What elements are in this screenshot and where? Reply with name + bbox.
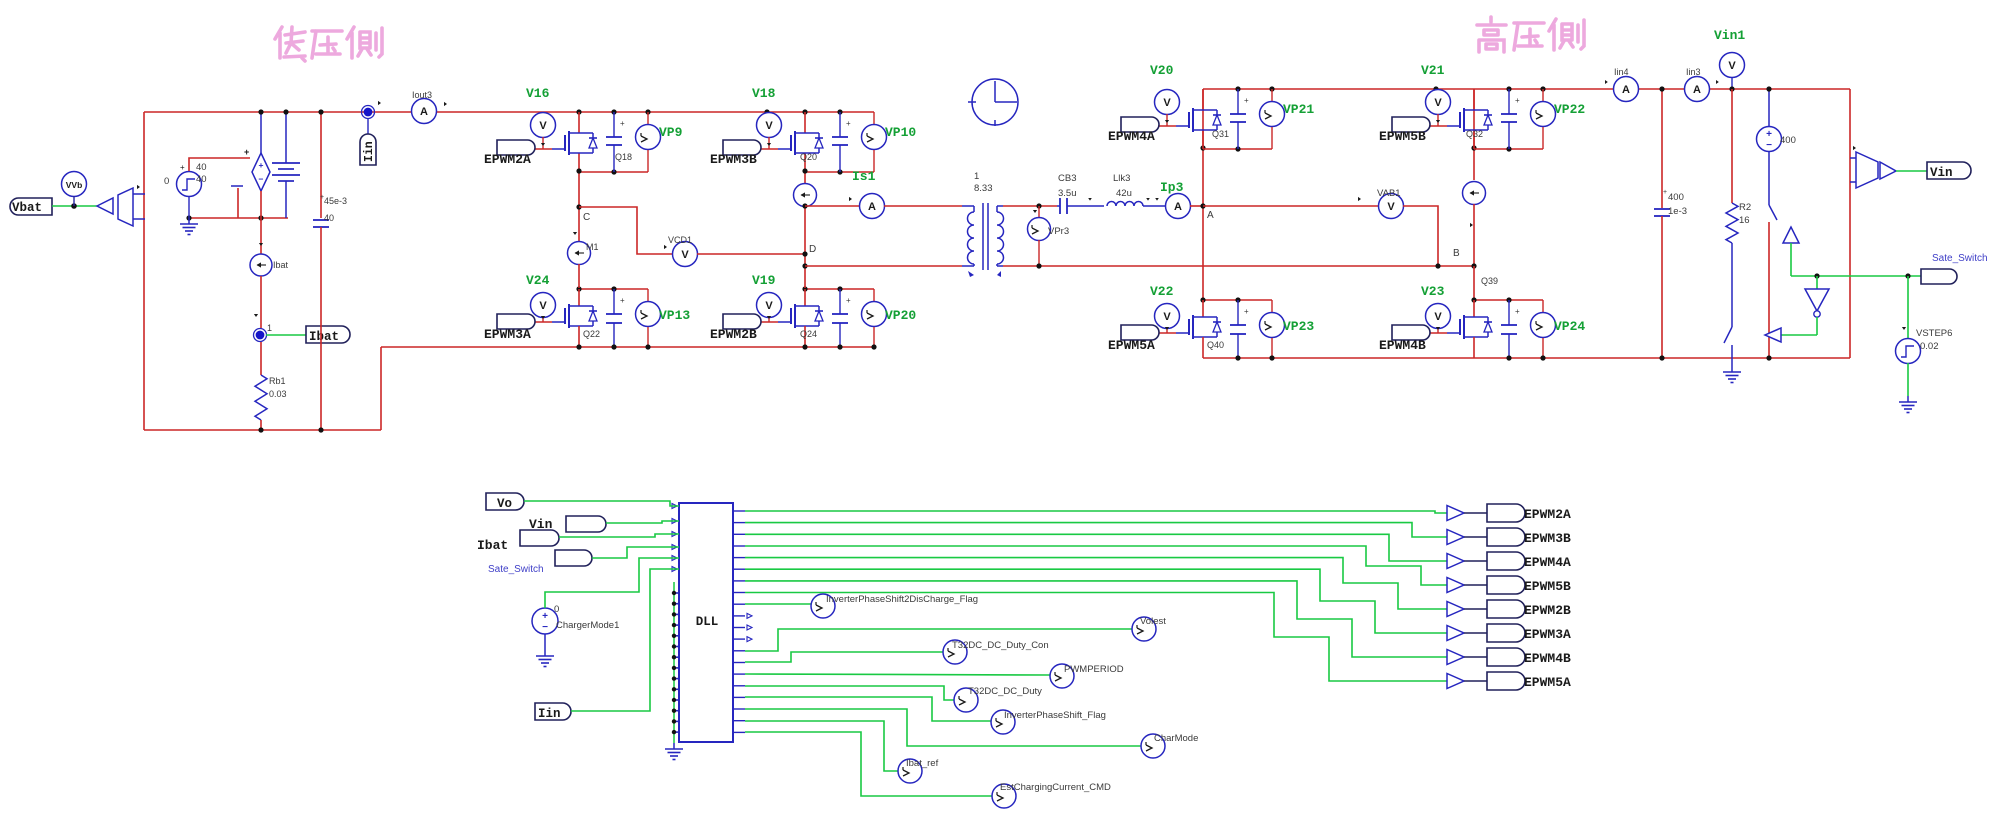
- wire Q24 cell local rail: [805, 288, 874, 290]
- ground under DLL pin bus: [673, 743, 675, 749]
- svg-text:Ibat: Ibat: [273, 260, 289, 270]
- label Vbat: [10, 198, 52, 215]
- clock symbol: [968, 79, 1018, 126]
- ammeter Iin4: [1605, 77, 1639, 102]
- svg-text:EPWM3A: EPWM3A: [484, 327, 531, 342]
- gate input EPWM2A: [497, 140, 535, 155]
- svg-text:ChargerMode1: ChargerMode1: [556, 620, 619, 631]
- svg-text:+: +: [180, 163, 185, 172]
- ground under R2 switch: [1731, 366, 1733, 372]
- svg-text:+: +: [1766, 129, 1772, 140]
- label Vin output: [1927, 162, 1971, 180]
- resistor R2 branch: [1724, 89, 1738, 366]
- wire Vin to DLL (green): [606, 521, 679, 523]
- wire Q39 cell local rail: [1474, 299, 1543, 301]
- svg-text:VAB1: VAB1: [1377, 188, 1401, 199]
- svg-text:T32DC_DC_Duty: T32DC_DC_Duty: [968, 686, 1042, 697]
- voltmeter VVb: [62, 172, 87, 207]
- voltmeter V19: [757, 293, 782, 323]
- svg-text:V: V: [539, 300, 547, 312]
- wire node A to VAB1: [1203, 205, 1379, 207]
- svg-text:3.5u: 3.5u: [1058, 188, 1077, 199]
- svg-text:+: +: [244, 147, 249, 157]
- svg-text:V: V: [1387, 201, 1395, 213]
- voltmeter V18: [757, 113, 782, 150]
- svg-text:VP24: VP24: [1554, 319, 1585, 334]
- output buffer EPWM5B: [1447, 578, 1487, 593]
- wire DLL to EPWM4A (green): [745, 534, 1447, 561]
- svg-text:+: +: [1244, 307, 1249, 316]
- transistor Q39: [1447, 300, 1492, 358]
- svg-text:42u: 42u: [1116, 188, 1132, 199]
- DLL left grounded pin bus: [672, 582, 679, 743]
- title low-voltage side (Chinese): [275, 27, 382, 61]
- capacitor Q32 snubber: [1501, 89, 1520, 149]
- svg-text:V23: V23: [1421, 284, 1445, 299]
- label box EPWM2B: [1487, 600, 1525, 618]
- svg-text:R2: R2: [1739, 202, 1751, 213]
- wire Is1 to transformer primary top: [884, 205, 962, 207]
- switch gate triangle (R2 dump): [1765, 328, 1781, 342]
- wire Ip3 to node A: [1190, 205, 1203, 207]
- svg-text:InverterPhaseShift2DisCharge_F: InverterPhaseShift2DisCharge_Flag: [826, 594, 978, 605]
- source ChargerMode1: [532, 608, 558, 650]
- svg-text:Ibat: Ibat: [309, 330, 339, 344]
- wire VCD1 to node D: [697, 253, 805, 255]
- svg-text:M1: M1: [586, 242, 599, 252]
- wire Q31 source stub: [1202, 130, 1204, 149]
- svg-text:V24: V24: [526, 273, 550, 288]
- transistor Q20: [778, 112, 823, 155]
- wire DLL to probe Volest (green): [745, 629, 1132, 651]
- svg-text:1e-3: 1e-3: [1668, 206, 1687, 217]
- svg-text:A: A: [1174, 201, 1182, 213]
- svg-text:VSTEP6: VSTEP6: [1916, 328, 1952, 339]
- svg-text:Llk3: Llk3: [1113, 173, 1130, 184]
- svg-text:Q24: Q24: [800, 329, 817, 339]
- wire Vbat to sense block (green): [52, 205, 97, 207]
- capacitor output 400/1e-3: [1654, 89, 1670, 358]
- svg-text:400: 400: [1668, 192, 1684, 203]
- probe VP24: [1531, 300, 1556, 358]
- wire right loop vertical: [1849, 89, 1851, 358]
- wire high bridge right leg upper: [1473, 89, 1475, 180]
- svg-text:0: 0: [554, 604, 559, 615]
- svg-text:Iin: Iin: [363, 141, 376, 162]
- svg-text:EPWM3A: EPWM3A: [1524, 627, 1571, 642]
- svg-text:Q31: Q31: [1212, 129, 1229, 139]
- capacitor CB3: [1057, 198, 1104, 214]
- wire low-side bottom rail (battery loop): [144, 429, 381, 431]
- probe VP13: [636, 289, 661, 347]
- svg-text:EPWM2A: EPWM2A: [1524, 507, 1571, 522]
- wire node D to transformer primary bottom: [805, 265, 962, 267]
- svg-text:Iin4: Iin4: [1614, 67, 1629, 77]
- wire Q18 source stub: [578, 153, 580, 172]
- probe Volest: [1132, 617, 1156, 641]
- svg-text:EPWM5B: EPWM5B: [1379, 129, 1426, 144]
- transistor Q40: [1176, 300, 1221, 358]
- wire DLL to probe InverterPhaseShift2DisCharge_Flag (green): [745, 603, 811, 605]
- probe VP22: [1531, 89, 1556, 149]
- svg-text:40: 40: [196, 162, 207, 173]
- DLL right output pin stubs: [733, 511, 745, 732]
- wire DLL to EPWM4B (green): [745, 581, 1447, 657]
- DLL unconnected pin arrows: [747, 613, 752, 641]
- svg-text:EPWM5B: EPWM5B: [1524, 579, 1571, 594]
- svg-text:V19: V19: [752, 273, 776, 288]
- wire node D to Is1 ammeter: [805, 205, 860, 207]
- svg-text:EPWM4B: EPWM4B: [1524, 651, 1571, 666]
- svg-text:400: 400: [1780, 135, 1796, 146]
- node Iin tap: [362, 101, 382, 119]
- svg-text:0.02: 0.02: [1920, 341, 1939, 352]
- title high-voltage side (Chinese): [1477, 17, 1584, 52]
- svg-text:1: 1: [267, 323, 272, 333]
- svg-text:−: −: [259, 174, 264, 184]
- svg-text:V16: V16: [526, 86, 550, 101]
- svg-text:A: A: [1207, 210, 1214, 221]
- wire Vin sense (green): [1896, 170, 1927, 172]
- probe InverterPhaseShift2DisCharge_Flag: [811, 594, 835, 618]
- label Iin input: [535, 703, 571, 721]
- wire DLL to probe T32DC_DC_Duty (green): [745, 686, 954, 700]
- wire DLL to probe Ibat_ref (green): [745, 721, 898, 771]
- svg-text:Q18: Q18: [615, 152, 632, 162]
- wire low-side top rail: [144, 111, 874, 113]
- svg-text:0.03: 0.03: [269, 389, 287, 399]
- svg-text:Is1: Is1: [852, 169, 876, 184]
- svg-text:InverterPhaseShift_Flag: InverterPhaseShift_Flag: [1004, 710, 1106, 721]
- svg-text:V20: V20: [1150, 63, 1174, 78]
- wire node B to Q39: [1473, 266, 1475, 300]
- node 1: [254, 314, 267, 342]
- probe PWMPERIOD: [1050, 664, 1074, 688]
- current sensor low-right leg: [794, 184, 817, 289]
- svg-text:Q40: Q40: [1207, 340, 1224, 350]
- svg-text:EPWM2B: EPWM2B: [1524, 603, 1571, 618]
- switch gate triangle (precharge): [1783, 227, 1799, 276]
- ammeter Is1: [849, 194, 885, 219]
- wire high-side bottom rail: [1203, 357, 1850, 359]
- probe InverterPhaseShift_Flag: [991, 710, 1015, 734]
- svg-text:Vin: Vin: [1930, 166, 1953, 180]
- svg-text:Vin1: Vin1: [1714, 28, 1745, 43]
- svg-text:V: V: [765, 120, 773, 132]
- wire VAB1 to node B: [1403, 206, 1438, 266]
- wire secondary top to CB3: [1003, 205, 1057, 207]
- wire DLL to EPWM3A (green): [745, 569, 1447, 633]
- label box EPWM4B: [1487, 648, 1525, 666]
- svg-text:D: D: [809, 244, 816, 255]
- wire Q20 source stub: [804, 153, 806, 172]
- wire Sate_Switch net (green): [1791, 275, 1940, 277]
- svg-text:1: 1: [974, 171, 979, 182]
- gate input EPWM3A: [497, 314, 535, 329]
- wire DLL to probe CharMode (green): [745, 709, 1141, 746]
- step source VSTEP (battery control): [177, 163, 202, 197]
- output buffer EPWM4B: [1447, 650, 1487, 665]
- wire DLL to EPWM2B (green): [745, 558, 1447, 609]
- svg-text:CharMode: CharMode: [1154, 733, 1198, 744]
- svg-text:EPWM3B: EPWM3B: [710, 152, 757, 167]
- step source VSTEP6: [1896, 276, 1921, 396]
- svg-text:V22: V22: [1150, 284, 1174, 299]
- wire DLL to EPWM5A (green): [745, 593, 1447, 682]
- svg-text:VP23: VP23: [1283, 319, 1314, 334]
- wire DLL to probe T32DC_DC_Duty_Con (green): [745, 652, 943, 662]
- svg-text:A: A: [1622, 84, 1630, 96]
- transistor Q22: [552, 289, 597, 347]
- svg-text:+: +: [1515, 307, 1520, 316]
- svg-text:+: +: [1244, 96, 1249, 105]
- svg-text:Ip3: Ip3: [1160, 180, 1184, 195]
- svg-text:EPWM5A: EPWM5A: [1108, 338, 1155, 353]
- label Vin input: [566, 516, 606, 532]
- svg-text:DLL: DLL: [696, 615, 719, 629]
- svg-text:V21: V21: [1421, 63, 1445, 78]
- label Iin (rotated): [360, 118, 376, 165]
- wire Q20 cell local rail: [805, 171, 874, 173]
- svg-text:40: 40: [324, 213, 334, 223]
- svg-text:V: V: [681, 249, 689, 261]
- wire right leg sensor segment: [804, 171, 806, 184]
- probe EstChargingCurrent_CMD: [992, 784, 1016, 808]
- label box EPWM5B: [1487, 576, 1525, 594]
- wire ChargerMode1 to DLL (green): [545, 558, 679, 608]
- svg-text:V: V: [1163, 311, 1171, 323]
- ammeter Iin3: [1685, 77, 1719, 102]
- svg-text:VP22: VP22: [1554, 102, 1585, 117]
- probe VP23: [1260, 300, 1285, 358]
- svg-text:Ibat_ref: Ibat_ref: [906, 758, 939, 769]
- svg-text:+: +: [846, 296, 851, 305]
- label box EPWM2A: [1487, 504, 1525, 522]
- wire ground rail under sources: [189, 217, 288, 219]
- wire Q32 cell local rail: [1474, 148, 1543, 150]
- wire DLL to probe PWMPERIOD (green): [745, 674, 1050, 675]
- svg-text:+: +: [1515, 96, 1520, 105]
- voltmeter VCD1: [664, 242, 698, 267]
- svg-text:+: +: [1663, 189, 1667, 196]
- output buffer EPWM3B: [1447, 530, 1487, 545]
- current sensor Ibat: [250, 218, 272, 328]
- sense buffer triangle (Vbat): [97, 198, 113, 214]
- wire DLL to EPWM2A (green): [745, 511, 1447, 513]
- gate input EPWM3B: [723, 140, 761, 155]
- svg-text:Q22: Q22: [583, 329, 600, 339]
- svg-text:45e-3: 45e-3: [324, 196, 347, 206]
- wire Q32 source stub: [1473, 130, 1475, 149]
- label box EPWM4A: [1487, 552, 1525, 570]
- svg-text:EPWM3B: EPWM3B: [1524, 531, 1571, 546]
- inductor Llk3: [1107, 202, 1166, 207]
- ground under step source: [180, 196, 198, 235]
- svg-text:EPWM2B: EPWM2B: [710, 327, 757, 342]
- ground under VSTEP6: [1907, 396, 1909, 402]
- DLL block U1: [679, 503, 733, 742]
- svg-text:−: −: [542, 622, 548, 633]
- svg-text:+: +: [846, 119, 851, 128]
- label Ibat (node label): [306, 326, 350, 344]
- svg-text:Ibat: Ibat: [477, 538, 508, 553]
- label Ibat input: [520, 530, 559, 546]
- wire low bridge bottom-left riser: [380, 347, 382, 430]
- probe T32DC_DC_Duty: [954, 688, 978, 712]
- svg-text:VP13: VP13: [659, 308, 690, 323]
- voltmeter V22: [1155, 304, 1180, 334]
- output buffer EPWM2A: [1447, 506, 1487, 521]
- svg-text:V: V: [1434, 97, 1442, 109]
- probe Ibat_ref: [898, 759, 922, 783]
- svg-text:PWMPERIOD: PWMPERIOD: [1064, 664, 1124, 675]
- svg-text:VP20: VP20: [885, 308, 916, 323]
- ammeter Ip3: [1166, 194, 1191, 219]
- transistor Q24: [778, 289, 823, 347]
- wire DLL to probe EstChargingCurrent_CMD (green): [745, 732, 992, 796]
- svg-text:0: 0: [164, 176, 169, 187]
- svg-text:CB3: CB3: [1058, 173, 1076, 184]
- gate input EPWM4A: [1121, 117, 1159, 132]
- svg-text:Q20: Q20: [800, 152, 817, 162]
- capacitor Q24 snubber: [832, 289, 851, 347]
- svg-text:Vbat: Vbat: [12, 201, 42, 215]
- gate input EPWM5B: [1392, 117, 1430, 132]
- gate input EPWM4B: [1392, 325, 1430, 340]
- probe VP20: [862, 289, 887, 347]
- svg-text:16: 16: [1739, 215, 1750, 226]
- svg-text:+: +: [320, 194, 324, 201]
- svg-text:8.33: 8.33: [974, 183, 993, 194]
- wire secondary bottom to node B: [1003, 265, 1474, 267]
- gate input EPWM5A: [1121, 325, 1159, 340]
- label Sate_Switch: [1921, 269, 1957, 284]
- svg-text:EPWM5A: EPWM5A: [1524, 675, 1571, 690]
- capacitor Q18 snubber: [606, 112, 625, 172]
- wire high-side top rail: [1203, 88, 1850, 90]
- probe T32DC_DC_Duty_Con: [943, 640, 967, 664]
- current sensor high-right leg: [1463, 182, 1486, 267]
- probe VP9: [636, 112, 661, 172]
- label Sate_Switch input: [555, 550, 592, 566]
- ammeter Iout3: [412, 99, 448, 124]
- output buffer EPWM2B: [1447, 602, 1487, 617]
- svg-text:T32DC_DC_Duty_Con: T32DC_DC_Duty_Con: [952, 640, 1049, 651]
- svg-text:VP21: VP21: [1283, 102, 1314, 117]
- voltmeter VAB1: [1358, 194, 1404, 219]
- wire Q18 cell local rail: [579, 171, 648, 173]
- svg-text:+: +: [620, 296, 625, 305]
- svg-text:−: −: [1766, 140, 1772, 151]
- controlled voltage source (battery model): [244, 112, 270, 218]
- transistor Q31: [1176, 89, 1221, 132]
- capacitor Q22 snubber: [606, 289, 625, 347]
- svg-text:EstChargingCurrent_CMD: EstChargingCurrent_CMD: [1000, 782, 1111, 793]
- svg-text:Sate_Switch: Sate_Switch: [1932, 253, 1988, 264]
- sense trapezoid block (Vbat): [118, 185, 145, 226]
- wire low-side left vertical: [143, 112, 145, 430]
- probe VPr3: [1028, 206, 1051, 266]
- svg-text:V18: V18: [752, 86, 776, 101]
- svg-text:EPWM4B: EPWM4B: [1379, 338, 1426, 353]
- svg-text:Iin3: Iin3: [1686, 67, 1701, 77]
- wire Vo to DLL (green): [524, 501, 679, 506]
- wire DLL to EPWM5B (green): [745, 546, 1447, 585]
- wire left leg node C: [578, 171, 580, 242]
- wire controlled source minus to ground rail: [237, 188, 239, 218]
- wire Q22 cell local rail: [579, 288, 648, 290]
- svg-text:V: V: [1434, 311, 1442, 323]
- sense trapezoid block (Vin): [1850, 146, 1896, 188]
- svg-text:VCD1: VCD1: [668, 235, 692, 245]
- current sensor M1: [568, 232, 591, 288]
- battery symbol: [272, 112, 300, 218]
- probe CharMode: [1141, 734, 1165, 758]
- voltmeter V24: [531, 293, 556, 323]
- svg-text:Q32: Q32: [1466, 129, 1483, 139]
- svg-text:EPWM4A: EPWM4A: [1108, 129, 1155, 144]
- svg-text:V: V: [765, 300, 773, 312]
- wire Iin to DLL (green): [571, 569, 679, 711]
- voltmeter V16: [531, 113, 556, 150]
- DLL left input pin marks: [672, 504, 677, 572]
- svg-text:Sate_Switch: Sate_Switch: [488, 564, 544, 575]
- svg-text:VP10: VP10: [885, 125, 916, 140]
- svg-text:40: 40: [196, 174, 207, 185]
- output buffer EPWM5A: [1447, 674, 1487, 689]
- svg-text:EPWM2A: EPWM2A: [484, 152, 531, 167]
- transistor Q18: [552, 112, 597, 155]
- svg-text:VPr3: VPr3: [1048, 226, 1069, 237]
- resistor Rb1: [255, 342, 267, 430]
- voltage source 400V precharge branch: [1757, 89, 1782, 358]
- svg-text:Volest: Volest: [1140, 616, 1166, 627]
- gate input EPWM2B: [723, 314, 761, 329]
- svg-text:Iout3: Iout3: [412, 90, 432, 100]
- capacitor Q31 snubber: [1230, 89, 1249, 149]
- svg-text:Vo: Vo: [497, 497, 512, 511]
- svg-text:+: +: [620, 119, 625, 128]
- capacitor battery-side 45e-3: [313, 112, 329, 430]
- svg-text:B: B: [1453, 248, 1460, 259]
- svg-text:V: V: [539, 120, 547, 132]
- wire low bridge bottom rail: [381, 346, 874, 348]
- capacitor Q39 snubber: [1501, 300, 1520, 358]
- transistor Q32: [1447, 89, 1492, 132]
- transformer TX1 1:8.33: [962, 203, 1004, 277]
- wire step source plus to controlled source: [189, 158, 250, 171]
- voltmeter Vin1: [1720, 53, 1745, 90]
- svg-text:A: A: [868, 201, 876, 213]
- inverter (NOT gate): [1781, 276, 1829, 335]
- svg-text:VVb: VVb: [66, 180, 83, 190]
- output buffer EPWM4A: [1447, 554, 1487, 569]
- svg-text:V: V: [1728, 60, 1736, 72]
- svg-text:V: V: [1163, 97, 1171, 109]
- wire high bridge left leg: [1202, 89, 1204, 300]
- voltmeter V23: [1426, 304, 1451, 334]
- voltmeter V21: [1426, 90, 1451, 127]
- svg-text:VP9: VP9: [659, 125, 683, 140]
- svg-text:+: +: [542, 611, 548, 622]
- label box EPWM3B: [1487, 528, 1525, 546]
- wire Q31 cell local rail: [1203, 148, 1272, 150]
- label box EPWM3A: [1487, 624, 1525, 642]
- capacitor Q20 snubber: [832, 112, 851, 172]
- probe VP21: [1260, 89, 1285, 149]
- wire node1 to Ibat label (green): [266, 334, 306, 336]
- wire node C to VCD1: [579, 207, 673, 254]
